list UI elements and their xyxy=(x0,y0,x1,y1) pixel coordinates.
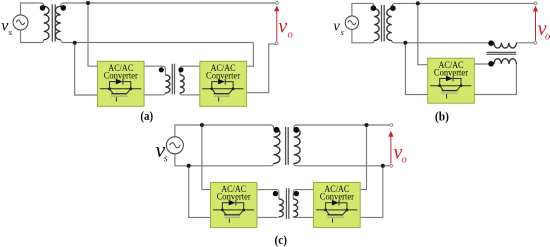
polarity dot T1b secondary xyxy=(390,5,396,11)
wire vs top to T1a primary top xyxy=(21,3,44,15)
transformer T2c secondary winding xyxy=(293,199,297,217)
polarity dot T3 upper xyxy=(488,40,494,46)
vo- terminal (b) xyxy=(534,41,537,44)
polarity dot T1a secondary xyxy=(61,5,67,11)
transformer T1a secondary winding xyxy=(55,6,60,39)
polarity dot T1b primary xyxy=(371,5,377,11)
wire node G drop to U5 right top xyxy=(360,125,367,190)
wire U1 right top to T2a primary xyxy=(144,66,165,75)
wire vs bottom to T1b primary bottom xyxy=(352,29,374,43)
polarity dot T2a secondary xyxy=(178,67,183,72)
wire T1c secondary bottom rail xyxy=(294,163,390,165)
svg-text:(c): (c) xyxy=(275,233,288,247)
wire T2c secondary top to U5 xyxy=(293,190,313,199)
vo- terminal xyxy=(275,42,278,45)
transformer T3 lower winding xyxy=(494,59,517,64)
wire node E drop to U4 top input xyxy=(202,125,211,190)
transformer T2a secondary winding xyxy=(180,75,184,93)
wire T2a secondary bottom to U2 xyxy=(180,93,200,95)
svg-text:o: o xyxy=(288,30,293,41)
wire node A drop to U1 top input xyxy=(88,3,98,66)
svg-text:(a): (a) xyxy=(140,109,153,123)
wire node C drop to U3 top input xyxy=(418,3,428,64)
wire vs bottom to T1a primary bottom xyxy=(21,30,44,43)
wire U4 right top to T2c primary xyxy=(257,190,279,199)
converter U4 xyxy=(210,182,257,227)
wire T1b secondary bottom rail to T3 upper winding xyxy=(392,41,494,43)
transformer T1c primary winding xyxy=(274,128,280,163)
wire vs top to T1b primary top xyxy=(352,3,374,16)
core T3 xyxy=(486,52,516,54)
wire vs top to T1c primary top xyxy=(175,125,274,137)
svg-text:o: o xyxy=(402,155,407,166)
transformer T1a primary winding xyxy=(44,6,49,39)
wire node F drop to U4 bottom input xyxy=(189,166,211,218)
vo+ terminal (b) xyxy=(534,2,537,5)
converter U1 xyxy=(98,61,145,106)
converter U2 xyxy=(200,61,247,106)
wire T2a primary bottom to U1 xyxy=(144,93,165,95)
node B junction dot xyxy=(73,41,77,45)
vo+ terminal (c) xyxy=(390,124,393,127)
wire secondary bottom rail xyxy=(61,40,254,43)
wire T2c primary bottom to U4 xyxy=(257,216,279,219)
node A junction dot xyxy=(86,1,90,5)
polarity dot T3 lower xyxy=(488,61,494,67)
wire secondary top rail to vo+ xyxy=(61,3,276,6)
converter U3 xyxy=(428,58,475,103)
vo- terminal (c) xyxy=(390,164,393,167)
vo arrow xyxy=(276,11,278,42)
wire T2a secondary top to U2 xyxy=(180,66,200,75)
wire node B drop to U1 bottom input xyxy=(75,43,98,96)
wire T3 upper winding to vo- xyxy=(516,42,534,44)
core T1c xyxy=(286,127,289,165)
source VS2 xyxy=(345,16,358,29)
vo+ terminal xyxy=(276,2,279,5)
wire T2c secondary bottom to U5 xyxy=(293,216,313,219)
wire U2 right bottom to vo- terminal xyxy=(246,44,275,93)
svg-text:s: s xyxy=(9,27,13,37)
polarity dot T2c primary xyxy=(273,191,278,196)
wire U3 right top to T3 lower winding xyxy=(474,63,494,65)
vo arrow (b) xyxy=(535,11,537,41)
transformer T1b primary winding xyxy=(374,9,379,41)
svg-text:s: s xyxy=(341,27,345,37)
source VS3 xyxy=(166,137,183,154)
core T2c xyxy=(286,188,288,219)
wire bottom rail step into U2 right top xyxy=(246,43,253,67)
wire node H drop to U5 right bottom xyxy=(360,166,383,218)
wire vs bottom to T1c primary bottom xyxy=(175,154,274,166)
transformer T1b secondary winding xyxy=(387,9,392,41)
vo arrow (c) xyxy=(390,136,392,163)
transformer T3 upper winding xyxy=(494,43,517,48)
wire node D drop to U3 bottom input xyxy=(405,43,427,95)
node H junction dot xyxy=(381,164,385,168)
core T2a xyxy=(172,64,174,95)
polarity dot T1c primary xyxy=(274,127,280,133)
polarity dot T1a primary xyxy=(40,5,46,11)
converter U5 xyxy=(314,182,361,227)
node D junction dot xyxy=(403,41,407,45)
node F junction dot xyxy=(187,164,191,168)
transformer T2c primary winding xyxy=(279,199,283,217)
polarity dot T1c secondary xyxy=(293,127,299,133)
node E junction dot xyxy=(200,123,204,127)
wire T3 lower winding right end to U3 bottom xyxy=(474,64,517,95)
polarity dot T2a primary xyxy=(159,67,164,72)
svg-text:v: v xyxy=(333,18,340,34)
source VS1 xyxy=(13,15,28,30)
core T1b xyxy=(382,5,385,42)
svg-text:s: s xyxy=(164,154,168,165)
wire T1c secondary top rail to vo+ xyxy=(294,125,390,128)
svg-text:v: v xyxy=(278,15,287,37)
transformer T2a primary winding xyxy=(165,75,170,93)
node G junction dot xyxy=(365,123,369,127)
wire T1b secondary top rail to vo+ xyxy=(392,3,534,8)
core T1a xyxy=(52,4,55,41)
polarity dot T2c secondary xyxy=(294,191,299,196)
svg-text:o: o xyxy=(545,32,550,43)
transformer T1c secondary winding xyxy=(294,128,300,163)
svg-text:(b): (b) xyxy=(435,110,449,124)
node C junction dot xyxy=(416,1,420,5)
